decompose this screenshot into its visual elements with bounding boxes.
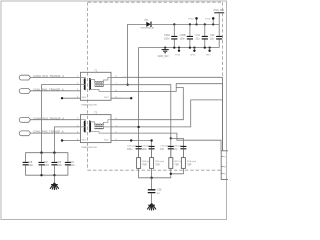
global label CANH_PH2_TRANSF_A — [19, 116, 64, 122]
svg-text:75R: 75R — [187, 164, 192, 167]
wire to chassis — [53, 175, 55, 182]
bias network top rail — [26, 153, 68, 162]
pin numbers T1 left — [77, 76, 79, 99]
svg-text:NC2: NC2 — [104, 97, 109, 99]
global label CANL_PH2_TRANSF_A — [19, 130, 64, 136]
junction — [170, 173, 172, 175]
wire T1 pin3 — [31, 90, 81, 92]
wire cap to chassis — [151, 193, 153, 203]
svg-text:GND_ISO: GND_ISO — [158, 55, 169, 58]
svg-text:NC2: NC2 — [104, 140, 109, 142]
svg-text:100n: 100n — [44, 164, 50, 167]
wire T2 pinB to connector — [122, 100, 222, 151]
svg-text:TMAG0501S-RL: TMAG0501S-RL — [81, 146, 98, 149]
coil core — [95, 125, 104, 128]
svg-text:100n: 100n — [69, 164, 75, 167]
svg-text:TP12: TP12 — [205, 19, 211, 21]
chassis ground — [147, 203, 156, 210]
termination bus wires — [139, 168, 184, 177]
resistor R11 — [150, 158, 165, 169]
wire T2 pin2 from bias network — [54, 127, 80, 153]
svg-text:75R: 75R — [142, 164, 147, 167]
no-connect stub T1 pin5 — [122, 97, 131, 99]
GND_ISO rail — [139, 48, 220, 158]
svg-text:+5V0_ISO: +5V0_ISO — [213, 9, 224, 12]
winding primary — [85, 79, 86, 89]
transformer T1 — [81, 70, 123, 106]
capacitor C35 — [160, 146, 174, 151]
svg-text:TP14: TP14 — [188, 19, 194, 21]
page frame — [1, 1, 227, 220]
svg-text:100n: 100n — [180, 38, 186, 41]
svg-text:75R: 75R — [174, 164, 179, 167]
test point TP12 — [205, 17, 214, 24]
capacitor C31 — [196, 24, 208, 47]
resistor R12 — [169, 158, 184, 169]
svg-text:75R: 75R — [155, 164, 160, 167]
svg-text:47p: 47p — [174, 148, 179, 151]
svg-text:NC1: NC1 — [82, 97, 87, 99]
wire T1 pin1 — [31, 76, 81, 78]
no-connect stub T2 pin4 — [62, 140, 81, 142]
winding secondary — [89, 121, 90, 132]
pin stubs — [111, 120, 122, 141]
capacitor C34 — [142, 146, 155, 151]
svg-text:22u: 22u — [210, 38, 215, 41]
svg-text:NC1: NC1 — [82, 140, 87, 142]
wire T1 pin2 from bias network — [42, 85, 81, 153]
internal wiring — [81, 77, 112, 91]
svg-text:47p: 47p — [160, 148, 165, 151]
winding primary — [85, 121, 86, 132]
junction trunk — [137, 126, 139, 128]
svg-text:SS34(SMD)-BT: SS34(SMD)-BT — [141, 27, 156, 29]
rail junctions — [173, 23, 214, 25]
wire T1 pin6 to connector — [122, 84, 222, 151]
capacitor C33 — [127, 146, 142, 151]
coil bottom row — [95, 128, 104, 129]
svg-text:22u: 22u — [196, 38, 201, 41]
+5V0_ISO rail — [151, 23, 219, 25]
svg-text:TP17: TP17 — [206, 54, 212, 56]
junctions — [40, 174, 42, 176]
wire T1 pin8 to connector — [122, 77, 222, 151]
internal wiring — [81, 120, 112, 133]
coil top row — [95, 82, 104, 83]
capacitor C29 — [65, 161, 75, 167]
no-connect stub T1 pin4 — [62, 97, 81, 99]
pin numbers T2 right — [116, 118, 118, 141]
coil top row — [95, 124, 104, 125]
wire termination bus upper — [171, 138, 184, 157]
bias network bottom rail — [26, 153, 68, 176]
junction — [170, 137, 172, 139]
test pad TP17 — [206, 48, 212, 57]
global label CANL_PH1_TRANSF_A — [19, 87, 64, 93]
resistor R13 — [181, 158, 196, 169]
junction — [53, 152, 55, 154]
resistor R10 — [137, 158, 152, 169]
capacitor C27 — [39, 161, 50, 167]
chassis ground — [50, 183, 59, 190]
pin numbers T2 left — [77, 118, 79, 141]
wire T2 pinC to connector — [122, 133, 221, 151]
wire from T1 pin 7 to diode anode — [128, 24, 147, 84]
junctions — [40, 152, 42, 154]
coil core — [95, 83, 104, 86]
wire T2 pinA branch — [122, 88, 183, 120]
power flag +5V0_ISO — [213, 9, 224, 24]
winding secondary — [89, 79, 90, 89]
test pad TP16 — [190, 48, 196, 57]
capacitor C32 — [210, 24, 222, 47]
wire T2 pin1 — [31, 119, 81, 121]
wire to safety cap — [151, 178, 153, 189]
junction — [150, 177, 152, 179]
wires caps to resistors — [139, 149, 184, 158]
capacitor C28 — [51, 161, 62, 167]
capacitor C30B — [180, 24, 193, 47]
pin stubs — [111, 77, 122, 98]
svg-text:100n: 100n — [127, 148, 133, 151]
capacitor C38 — [148, 188, 162, 194]
svg-text:100n: 100n — [142, 148, 148, 151]
connector shield — [221, 151, 230, 180]
pin numbers T1 right — [116, 76, 118, 99]
svg-text:TMAG0501S-RL: TMAG0501S-RL — [81, 104, 98, 107]
isolation barrier dashed box — [88, 2, 223, 170]
svg-text:100n: 100n — [164, 38, 170, 41]
svg-text:TP15: TP15 — [175, 54, 181, 56]
svg-text:100n: 100n — [28, 164, 34, 167]
transformer T2 — [81, 113, 123, 149]
junction diode feed — [126, 84, 128, 86]
rail junctions — [164, 46, 211, 48]
capacitor C26 — [23, 161, 34, 167]
wire T2 pinD to termination — [122, 141, 152, 158]
junction — [40, 152, 42, 154]
capacitor C30A — [164, 24, 177, 47]
capacitor C36 — [173, 146, 186, 151]
svg-text:100n: 100n — [57, 164, 63, 167]
global label CANH_PH1_TRANSF_A — [19, 74, 64, 80]
coil bottom row — [95, 85, 104, 86]
test point TP14 — [188, 17, 198, 24]
svg-text:TP16: TP16 — [190, 54, 196, 56]
wire T1 pin7 to termination — [122, 85, 171, 139]
diode D5 — [141, 19, 156, 29]
wire T2 pin3 — [31, 132, 81, 134]
test pad TP15 — [175, 48, 181, 57]
ground GND_ISO — [158, 48, 169, 59]
